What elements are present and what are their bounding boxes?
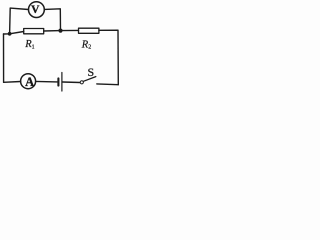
wire main row middle segment <box>44 29 79 32</box>
wire battery to switch pivot <box>63 81 80 84</box>
switch pivot circle <box>80 81 83 84</box>
svg-text:V: V <box>31 4 40 16</box>
svg-text:S: S <box>88 65 95 79</box>
wire switch to bottom right corner <box>97 83 119 86</box>
wire voltmeter branch left (corner to left junction) <box>10 8 29 34</box>
ammeter A (meter circle) <box>21 74 36 89</box>
wire voltmeter branch right (circle to right junction) <box>45 9 61 31</box>
voltmeter V (meter circle) <box>29 2 45 18</box>
wire main row right segment and right rail <box>99 30 118 84</box>
battery short plate (negative) <box>57 78 59 85</box>
node junction dot left <box>8 32 12 36</box>
wire ammeter to battery <box>36 80 58 83</box>
resistor R1 <box>24 29 44 34</box>
battery long plate (positive) <box>61 73 63 92</box>
wire main row left segment <box>4 32 24 35</box>
svg-text:A: A <box>25 75 34 89</box>
node junction dot right <box>58 29 62 33</box>
wire left rail <box>3 34 5 82</box>
wire bottom left to ammeter <box>4 81 21 84</box>
switch lever <box>83 77 95 82</box>
resistor R2 <box>79 28 99 33</box>
